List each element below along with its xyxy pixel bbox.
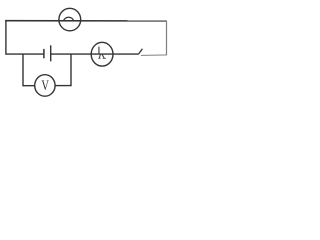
wire: top conductor [5,20,167,22]
wire: voltmeter bottom conductor [23,85,71,87]
wire: left vertical conductor [5,20,7,55]
battery cell: long positive plate [50,45,52,61]
wire: middle conductor from left vertical to battery [6,53,44,55]
switch (open blade) [139,49,143,54]
ammeter A [91,42,113,66]
wire: right vertical conductor [166,20,168,55]
wire: middle conductor from battery through ammeter to switch [51,53,139,55]
voltmeter label V [41,77,49,93]
wire: conductor from switch to right vertical [141,54,167,57]
electric bell [59,8,81,31]
battery cell: short negative plate [43,49,45,58]
voltmeter V (case) [35,75,55,97]
svg-text:V: V [41,77,49,93]
wire: voltmeter branch right vertical [70,54,72,86]
wire: voltmeter branch left vertical [22,54,24,86]
